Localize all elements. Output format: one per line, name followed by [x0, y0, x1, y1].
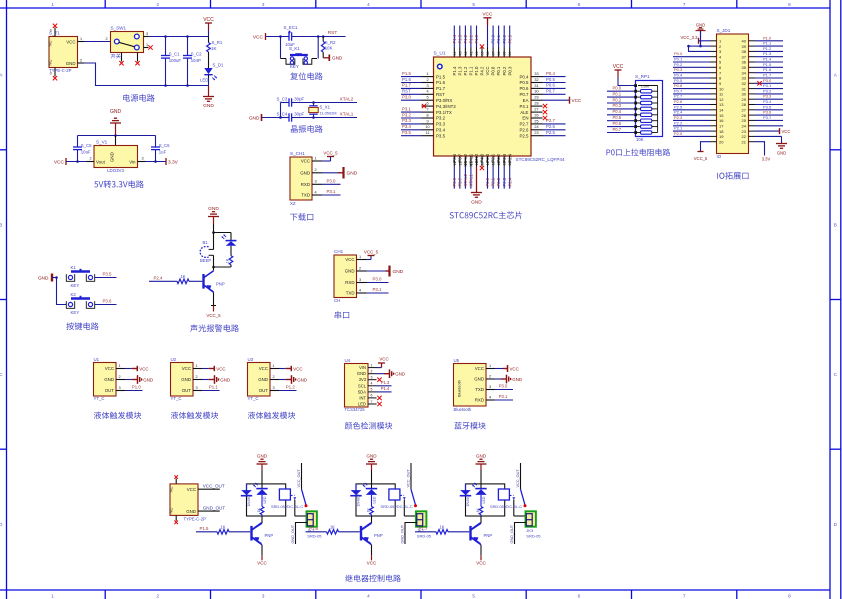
svg-text:P1.7: P1.7: [402, 83, 411, 88]
svg-text:LDO3V3: LDO3V3: [107, 168, 124, 173]
svg-text:S_C3: S_C3: [277, 96, 288, 101]
svg-text:14: 14: [719, 108, 724, 113]
svg-text:P0.2: P0.2: [502, 66, 507, 75]
svg-text:XTAL1: XTAL1: [469, 173, 474, 186]
svg-text:GND: GND: [110, 109, 122, 115]
relay coil 1: [279, 489, 290, 500]
resistor S_R2 10K: [321, 37, 336, 58]
svg-text:S_U1: S_U1: [434, 51, 446, 57]
wire io left P2.3: [673, 119, 710, 121]
svg-text:SRD-05: SRD-05: [417, 533, 432, 538]
svg-text:P1.4: P1.4: [763, 57, 772, 62]
svg-text:XTAL2: XTAL2: [340, 96, 354, 101]
svg-text:10: 10: [425, 125, 429, 129]
svg-text:2: 2: [426, 78, 428, 82]
svg-text:EA: EA: [523, 98, 529, 103]
svg-text:18: 18: [486, 161, 490, 165]
capacitor S_C1 100uF: [161, 37, 181, 86]
svg-text:P1.2: P1.2: [286, 385, 295, 390]
svg-text:S_RP1: S_RP1: [635, 74, 650, 79]
svg-text:34: 34: [742, 70, 747, 75]
power port GND crystal: [249, 114, 282, 122]
wire K1 to P3.5: [95, 277, 117, 279]
svg-text:P1.0: P1.0: [763, 35, 772, 40]
svg-text:SRD-05: SRD-05: [307, 533, 322, 538]
wire io left P2.2: [673, 125, 710, 127]
svg-text:NC: NC: [48, 40, 53, 46]
svg-text:NC: NC: [169, 507, 174, 513]
svg-text:30pF: 30pF: [294, 111, 304, 116]
wire ldo top rail: [78, 135, 156, 137]
svg-text:OUT: OUT: [259, 388, 269, 393]
key S_K1: [281, 46, 318, 69]
wire io right P1.5: [755, 66, 783, 68]
svg-text:GND: GND: [66, 61, 76, 66]
svg-text:P1.1: P1.1: [469, 66, 474, 75]
caption crystal circuit: [291, 125, 323, 133]
svg-text:37: 37: [742, 54, 747, 59]
resistor alarm 1K: [225, 246, 232, 267]
mcu top pin 35 P0.2: [502, 26, 507, 76]
diode D2 1N4007: [350, 484, 361, 507]
caption mcu: [450, 211, 522, 219]
wire K2 to P3.6: [95, 304, 117, 306]
svg-text:13: 13: [458, 161, 462, 165]
wire xtal1 rail: [295, 117, 357, 119]
wire io right P1.6: [755, 72, 783, 74]
svg-text:GND: GND: [38, 275, 49, 281]
svg-text:11.0592M: 11.0592M: [320, 110, 337, 115]
mcu left pin 7 P3.1/TX: [401, 106, 452, 114]
svg-text:1N4007: 1N4007: [247, 494, 251, 507]
wire io row3 gnd: [689, 46, 711, 51]
svg-text:3: 3: [426, 84, 428, 88]
svg-text:P0.7: P0.7: [613, 127, 622, 132]
relay coil 3: [498, 489, 509, 500]
transistor PNP relay 3: [471, 516, 493, 545]
svg-text:P3.0: P3.0: [326, 179, 336, 184]
svg-text:GND: GND: [258, 377, 268, 382]
svg-text:P3.6: P3.6: [102, 299, 112, 304]
svg-text:P2.4: P2.4: [153, 275, 163, 280]
caption liquid trigger module 3: [248, 412, 295, 419]
svg-text:P0.2: P0.2: [502, 34, 507, 43]
svg-text:P4.1: P4.1: [519, 104, 529, 109]
svg-text:NC: NC: [48, 59, 53, 65]
resistor relay 1 1K: [257, 495, 264, 516]
svg-text:10K: 10K: [325, 46, 333, 51]
wire emitter VCC relay 1: [257, 545, 267, 566]
wire io left P0.7: [673, 93, 710, 95]
svg-text:1N4007: 1N4007: [356, 494, 360, 507]
svg-text:P1.5: P1.5: [763, 62, 772, 67]
svg-text:100uF: 100uF: [169, 58, 182, 63]
svg-text:43: 43: [458, 52, 462, 56]
svg-text:5: 5: [472, 593, 475, 598]
svg-text:1: 1: [371, 363, 373, 367]
pin INT nc: [377, 396, 381, 400]
module U1 liquid trigger: [94, 357, 126, 401]
caption alarm circuit: [190, 324, 239, 332]
svg-text:2: 2: [489, 374, 491, 378]
svg-text:22: 22: [742, 134, 747, 139]
svg-text:P0.1: P0.1: [496, 66, 501, 75]
capacitor S_C3 30pF: [277, 96, 305, 106]
svg-text:6: 6: [426, 102, 428, 106]
svg-text:20: 20: [497, 161, 501, 165]
svg-text:1K: 1K: [330, 524, 335, 529]
wire P0.7 pullup: [607, 132, 634, 134]
svg-text:VCC: VCC: [54, 160, 65, 166]
svg-text:P1.4: P1.4: [452, 66, 457, 75]
svg-text:VCC: VCC: [187, 487, 196, 492]
wire P3.0 download: [322, 183, 341, 185]
svg-text:23: 23: [742, 129, 747, 134]
wire io left P2.6: [673, 104, 710, 106]
svg-text:16: 16: [719, 118, 724, 123]
wire io left P0.4: [673, 77, 710, 79]
svg-text:P2.6: P2.6: [519, 128, 529, 133]
svg-text:1K: 1K: [439, 524, 444, 529]
svg-text:GND: GND: [143, 377, 153, 382]
svg-text:27: 27: [534, 108, 538, 112]
wire io left P2.0: [673, 135, 710, 137]
ground GND mcu bottom: [471, 193, 482, 206]
svg-text:VCC: VCC: [216, 366, 225, 371]
diode D3 1N4007: [460, 484, 471, 507]
svg-text:31: 31: [742, 86, 747, 91]
mcu left pin 1 P1.5: [401, 71, 446, 79]
svg-text:1uF: 1uF: [159, 149, 167, 154]
svg-text:6: 6: [371, 394, 373, 398]
svg-text:S_CH1: S_CH1: [290, 151, 305, 156]
power port VCC_5 download: [322, 150, 338, 161]
svg-text:P3.1: P3.1: [372, 287, 382, 292]
svg-text:RXD: RXD: [301, 182, 310, 187]
svg-text:1K: 1K: [476, 508, 480, 513]
svg-text:U1: U1: [94, 357, 100, 362]
svg-text:P3.3: P3.3: [763, 94, 772, 99]
svg-text:P0.6: P0.6: [613, 121, 622, 126]
wire SDA P1.4: [377, 391, 392, 393]
svg-text:S_C1: S_C1: [169, 51, 180, 56]
svg-text:RST: RST: [328, 30, 338, 36]
svg-text:15: 15: [469, 161, 473, 165]
svg-text:30: 30: [534, 90, 538, 94]
svg-text:P0.5: P0.5: [546, 77, 555, 82]
svg-text:3.3V: 3.3V: [168, 160, 179, 166]
svg-text:CH: CH: [334, 298, 340, 303]
svg-text:4: 4: [371, 382, 373, 386]
wire io right P3.1: [755, 88, 783, 90]
svg-text:104P: 104P: [191, 58, 201, 63]
svg-text:GND_OUT: GND_OUT: [203, 505, 226, 510]
power port VCC_5 serial: [364, 249, 379, 259]
svg-text:GND: GND: [696, 23, 705, 28]
capacitor S_EC1 10uF polarized: [284, 25, 298, 47]
wire io pin24: [755, 125, 783, 127]
caption reset circuit: [290, 72, 322, 80]
svg-text:VCC: VCC: [139, 366, 148, 371]
relay switch 3: [510, 463, 527, 516]
wire alarm bottom node: [214, 266, 232, 268]
svg-text:P3.0/RX: P3.0/RX: [436, 98, 452, 103]
svg-text:P0.6: P0.6: [546, 83, 555, 88]
svg-text:18: 18: [719, 129, 724, 134]
wire io left P0.1: [673, 61, 710, 63]
svg-text:P0.5: P0.5: [674, 78, 683, 83]
svg-text:GND: GND: [332, 56, 343, 61]
svg-text:VCC_5: VCC_5: [206, 313, 221, 318]
ground GND io top: [696, 23, 711, 48]
wire io right P3.7: [755, 119, 783, 121]
power port GND serial: [367, 266, 404, 277]
svg-text:P3.0: P3.0: [763, 78, 772, 83]
svg-text:19: 19: [719, 134, 724, 139]
svg-text:U3: U3: [248, 357, 254, 362]
svg-text:INT: INT: [359, 395, 366, 400]
svg-text:1: 1: [426, 72, 428, 76]
transistor PNP relay 2: [361, 516, 383, 545]
svg-text:GND: GND: [297, 377, 307, 382]
svg-text:P0.3: P0.3: [674, 67, 683, 72]
svg-text:4: 4: [315, 190, 317, 194]
svg-text:2: 2: [157, 2, 160, 7]
svg-text:GND: GND: [220, 377, 230, 382]
power port VCC reset: [253, 33, 288, 41]
svg-text:3: 3: [359, 278, 361, 282]
svg-text:S_R1: S_R1: [212, 40, 223, 45]
svg-text:1: 1: [51, 593, 54, 598]
svg-text:VCC: VCC: [379, 357, 388, 362]
svg-text:3: 3: [196, 386, 198, 390]
svg-text:25: 25: [742, 118, 747, 123]
svg-text:33: 33: [534, 72, 538, 76]
svg-text:2: 2: [90, 157, 92, 161]
svg-text:VCC: VCC: [345, 257, 354, 262]
svg-text:13: 13: [719, 102, 724, 107]
ground GND relay 2: [366, 453, 377, 488]
svg-text:P3.3: P3.3: [436, 122, 446, 127]
wire P3.1 serial: [367, 292, 389, 294]
svg-text:S_R2: S_R2: [325, 40, 336, 45]
svg-text:6: 6: [578, 593, 581, 598]
svg-text:S_EC1: S_EC1: [284, 25, 298, 30]
resistor alarm base 1K: [149, 274, 202, 284]
svg-text:VCC: VCC: [572, 98, 582, 103]
svg-text:P3.2: P3.2: [402, 112, 411, 117]
caption color detect module: [345, 422, 392, 429]
ground GND relay 1: [257, 453, 268, 488]
capacitor S_C5 10uF: [73, 136, 92, 162]
svg-text:P3.7: P3.7: [763, 115, 772, 120]
wire crystal left: [280, 103, 282, 118]
svg-text:37: 37: [492, 52, 496, 56]
svg-text:SRD-05VDC-SL-C: SRD-05VDC-SL-C: [381, 504, 413, 509]
resistor base 3 1K: [415, 524, 469, 534]
svg-text:VCC: VCC: [476, 560, 486, 565]
mcu right pin 28 P4.1: [519, 102, 547, 109]
svg-text:20: 20: [719, 139, 724, 144]
svg-text:29: 29: [534, 96, 538, 100]
svg-text:P3.1/TX: P3.1/TX: [436, 110, 452, 115]
svg-text:P0.4: P0.4: [613, 109, 622, 114]
svg-text:30: 30: [742, 92, 747, 97]
svg-text:VCC_OUT: VCC_OUT: [516, 469, 520, 488]
svg-text:GND: GND: [476, 453, 487, 458]
svg-text:P2.0: P2.0: [485, 177, 490, 186]
wire GND_OUT relay 2: [401, 523, 417, 545]
svg-text:39: 39: [481, 52, 485, 56]
svg-text:19: 19: [492, 161, 496, 165]
svg-text:LED: LED: [372, 496, 376, 503]
svg-text:GND: GND: [300, 170, 310, 175]
svg-text:P0.7: P0.7: [546, 89, 555, 94]
svg-text:GND: GND: [104, 377, 114, 382]
wire io row20 vcc5: [701, 142, 711, 152]
power port VCC bluetooth: [495, 365, 519, 372]
svg-text:P1.1: P1.1: [763, 41, 772, 46]
mcu left pin 11 P3.5: [401, 130, 446, 138]
caption serial port: [335, 311, 350, 319]
mcu top pin 44 P1.4: [452, 26, 457, 76]
svg-text:P4.3/INT2: P4.3/INT2: [436, 104, 456, 109]
wire io left P2.4: [673, 114, 710, 116]
wire P0.0 pullup: [607, 90, 634, 92]
svg-text:YT_C: YT_C: [248, 396, 259, 401]
svg-text:P2.2: P2.2: [496, 177, 501, 186]
svg-text:Vin: Vin: [129, 160, 136, 165]
svg-text:GND_OUT: GND_OUT: [510, 524, 514, 543]
svg-text:VCC: VCC: [301, 159, 310, 164]
svg-text:P0.0: P0.0: [613, 86, 622, 91]
svg-text:1K: 1K: [220, 524, 225, 529]
svg-text:LED: LED: [263, 496, 267, 503]
mcu top pin 43 P1.3: [457, 26, 462, 76]
mcu bottom pin 18 P2.0: [485, 153, 490, 189]
ground GND relay 3: [476, 453, 487, 488]
svg-text:12: 12: [453, 161, 457, 165]
svg-text:YT_C: YT_C: [171, 396, 182, 401]
svg-text:P0.3: P0.3: [613, 103, 622, 108]
svg-text:39: 39: [742, 44, 747, 49]
svg-text:GND: GND: [109, 152, 114, 162]
svg-text:VCC_5: VCC_5: [364, 249, 379, 254]
wire io left P2.1: [673, 130, 710, 132]
svg-text:VCC_OUT: VCC_OUT: [297, 469, 301, 488]
svg-text:36: 36: [497, 52, 501, 56]
svg-text:P0.4: P0.4: [519, 74, 529, 79]
mcu bottom pin 17 P4.0: [480, 153, 485, 170]
svg-text:P3.3: P3.3: [402, 118, 411, 123]
relay coil 2: [389, 489, 400, 500]
svg-text:10uF: 10uF: [81, 149, 91, 154]
svg-text:P2.5: P2.5: [674, 104, 683, 109]
svg-text:TYPE-C-2P: TYPE-C-2P: [184, 517, 207, 522]
svg-text:9: 9: [426, 119, 428, 123]
mcu top pin 41 P1.1: [469, 26, 474, 76]
wire emitter VCC relay 3: [476, 545, 486, 566]
wire P3.0 serial: [367, 282, 389, 284]
svg-text:VCC: VCC: [203, 17, 214, 23]
svg-text:35: 35: [503, 52, 507, 56]
svg-text:26: 26: [742, 113, 747, 118]
wire io left P0.6: [673, 88, 710, 90]
svg-text:1: 1: [196, 364, 198, 368]
wire OUT module U3 P1.2: [279, 390, 297, 392]
svg-text:GND: GND: [366, 453, 377, 458]
svg-text:P2.1: P2.1: [491, 177, 496, 186]
svg-text:P3.4: P3.4: [763, 99, 772, 104]
svg-text:PNP: PNP: [484, 533, 493, 538]
wire io left P0.2: [673, 66, 710, 68]
svg-text:P0.3: P0.3: [507, 66, 512, 75]
svg-text:GND: GND: [777, 151, 786, 156]
svg-text:P3.5: P3.5: [102, 272, 112, 277]
relay K1 frame: [247, 484, 286, 516]
svg-text:B: B: [0, 222, 2, 227]
svg-text:26: 26: [534, 113, 538, 117]
svg-text:P2.6: P2.6: [674, 99, 683, 104]
svg-text:P2.4: P2.4: [674, 110, 683, 115]
svg-text:P3.1: P3.1: [499, 394, 508, 399]
svg-text:S_SW1: S_SW1: [111, 25, 127, 30]
mcu right pin 23 P2.5: [519, 130, 565, 138]
svg-text:1K: 1K: [180, 274, 185, 279]
svg-text:GND_OUT: GND_OUT: [401, 524, 405, 543]
power port VCC ldo: [54, 158, 87, 166]
svg-text:3.3V: 3.3V: [762, 156, 771, 161]
svg-text:P1.5: P1.5: [402, 71, 411, 76]
svg-text:SRD-05VDC-SL-C: SRD-05VDC-SL-C: [271, 504, 303, 509]
svg-text:U2: U2: [171, 357, 177, 362]
svg-text:27: 27: [742, 108, 747, 113]
svg-text:P1.0: P1.0: [132, 385, 141, 390]
capacitor S_C6 1uF: [151, 136, 170, 162]
module U2 liquid trigger: [171, 357, 203, 401]
svg-text:P2.6: P2.6: [546, 124, 555, 129]
svg-text:VCC: VCC: [253, 35, 264, 41]
svg-text:P1.7: P1.7: [763, 73, 772, 78]
svg-text:1: 1: [146, 43, 148, 47]
wire key right drop: [317, 37, 319, 59]
svg-text:P2.5: P2.5: [519, 133, 529, 138]
svg-text:RXD: RXD: [475, 398, 484, 403]
connector S_CH1 download: [290, 151, 322, 206]
wire TXD P3.0: [495, 389, 514, 391]
svg-text:S_C4: S_C4: [277, 111, 288, 116]
svg-text:VCC: VCC: [257, 560, 267, 565]
wire alarm top node: [214, 232, 232, 234]
LED S_D1: [200, 63, 224, 86]
svg-text:LED: LED: [200, 77, 208, 82]
capacitor S_C2 104P: [183, 37, 202, 86]
svg-text:4: 4: [426, 90, 428, 94]
svg-text:2: 2: [315, 168, 317, 172]
regulator S_V1 LDO3V3: [87, 136, 146, 173]
svg-text:P3.0: P3.0: [372, 277, 382, 282]
svg-text:TXD: TXD: [475, 387, 484, 392]
svg-text:S_C2: S_C2: [191, 51, 202, 56]
wire io right P1.4: [755, 61, 783, 63]
svg-text:IO: IO: [717, 154, 722, 159]
resistor relay 2 1K: [366, 495, 373, 516]
svg-text:3: 3: [142, 157, 144, 161]
terminal block JK1: [307, 511, 323, 538]
label kaiguan: [111, 54, 121, 59]
power port GND reset: [323, 55, 343, 62]
key K1: [66, 265, 94, 288]
